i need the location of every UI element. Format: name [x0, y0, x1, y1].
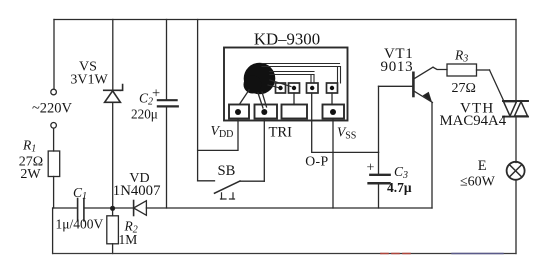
wire TR1 pin lead	[263, 119, 265, 182]
wire lamp to bottom rail	[515, 180, 517, 254]
zener diode VS	[104, 20, 123, 207]
trace M4 to VSS pad	[331, 93, 333, 105]
wire node A to C1	[53, 207, 77, 209]
capacitor C1	[77, 199, 79, 221]
pad VSS	[323, 105, 345, 119]
capacitor C2	[158, 20, 178, 209]
svg-text:1M: 1M	[119, 232, 138, 247]
wire left branch from top rail to upper terminal	[53, 20, 55, 90]
svg-text:O-P: O-P	[305, 154, 328, 169]
svg-text:1μ/400V: 1μ/400V	[56, 217, 104, 232]
svg-text:E: E	[478, 158, 487, 174]
node lower AC terminal	[51, 123, 57, 129]
wire lower terminal to R1	[53, 128, 55, 151]
wire bottom rail	[53, 253, 516, 255]
svg-text:MAC94A4: MAC94A4	[440, 113, 507, 129]
wire VSS pin to ground rail	[332, 119, 334, 209]
svg-text:27Ω: 27Ω	[452, 81, 476, 96]
wire R1 bottom to node A	[53, 177, 55, 209]
trace top pair	[262, 64, 340, 67]
svg-text:4.7μ: 4.7μ	[387, 180, 412, 195]
transistor VT1 9013	[379, 67, 434, 208]
wire C1 to node B	[85, 207, 111, 209]
pad TR1	[255, 105, 278, 119]
wire triac to lamp	[515, 117, 517, 163]
svg-text:220μ: 220μ	[131, 107, 158, 122]
trace pad3 to M2	[293, 93, 295, 105]
lamp E	[507, 162, 525, 180]
wire top rail	[54, 19, 516, 21]
wire O-P lead	[312, 93, 379, 152]
mid pad M2	[289, 83, 300, 93]
svg-text:+: +	[367, 161, 375, 176]
wire node A down to bottom rail	[52, 208, 54, 254]
svg-text:9013: 9013	[381, 59, 414, 75]
trace blob to VDD pad	[240, 90, 249, 104]
IC chip blob	[244, 63, 276, 95]
wire VDD supply line	[197, 20, 199, 181]
mid pad M4	[327, 83, 338, 93]
mid pad M3	[307, 83, 319, 93]
mid pad M1	[276, 83, 286, 93]
resistor R3	[433, 64, 490, 76]
diode VD 1N4007	[115, 201, 432, 216]
svg-text:TRI: TRI	[269, 125, 293, 141]
wire bottom rail blue tint segment	[452, 253, 503, 255]
IC U1 KD-9300 board outline	[224, 48, 348, 121]
pushbutton SB	[198, 181, 265, 199]
svg-text:~220V: ~220V	[32, 101, 73, 117]
bond wire to M1	[268, 85, 278, 88]
wire bottom rail red tint segment	[381, 253, 413, 255]
trace to M3	[311, 75, 314, 84]
svg-text:SB: SB	[218, 163, 236, 179]
svg-text:+: +	[152, 86, 160, 102]
trace to M4	[338, 67, 341, 84]
node upper AC terminal	[51, 89, 57, 95]
svg-text:≤60W: ≤60W	[460, 175, 496, 190]
pad 3	[282, 105, 308, 119]
pad VDD	[229, 105, 249, 119]
wire gate diagonal	[490, 70, 505, 102]
wire right rail upper	[515, 20, 517, 102]
trace second pair	[270, 72, 314, 75]
capacitor C3	[369, 152, 390, 208]
triac VTH	[503, 101, 528, 117]
svg-text:3V1W: 3V1W	[70, 73, 108, 88]
svg-text:2W: 2W	[20, 167, 41, 182]
resistor R2	[107, 211, 119, 254]
svg-text:KD–9300: KD–9300	[254, 30, 320, 49]
resistor R1	[48, 151, 60, 177]
svg-text:1N4007: 1N4007	[113, 183, 161, 199]
wire VDD pad lead	[198, 119, 238, 151]
bond wire to M2	[270, 80, 291, 87]
node B junction dot	[110, 206, 115, 211]
trace blob to TR1 pad	[258, 92, 267, 108]
